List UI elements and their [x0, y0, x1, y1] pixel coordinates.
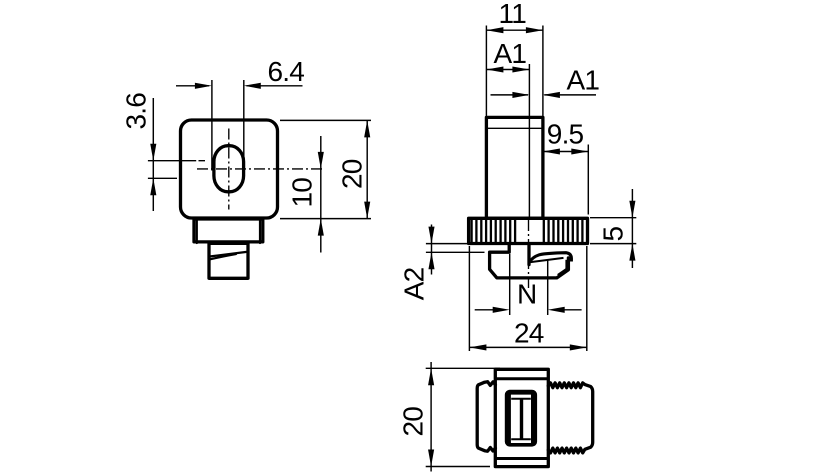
dim 9.5 line — [543, 151, 588, 153]
wire ext 9.5 right — [587, 145, 589, 215]
foot side chamfer inner tick — [558, 269, 567, 275]
svg-text:9.5: 9.5 — [547, 119, 584, 150]
slot top inner lines — [511, 399, 531, 440]
dim 11 line — [486, 29, 543, 31]
wire ext bottom right (10/20) — [280, 218, 371, 220]
svg-text:5: 5 — [598, 227, 629, 242]
dim A1 upper arrows — [486, 66, 503, 72]
wire ext 24 right — [586, 246, 588, 351]
svg-text:20: 20 — [337, 159, 368, 189]
svg-text:N: N — [517, 279, 536, 310]
dim 3.6 line — [152, 98, 154, 211]
hole vertical centerline — [228, 129, 230, 210]
foot side middle edge — [527, 244, 530, 265]
dim A2 arrows — [428, 227, 434, 244]
dim 24 line — [469, 346, 586, 348]
wire ext top right (20) — [280, 119, 371, 121]
wire ext 20 bottom — [426, 466, 490, 468]
flange top right part — [548, 383, 592, 453]
svg-text:24: 24 — [514, 318, 544, 349]
wire ext N right — [547, 261, 549, 316]
dim 3.6 arrows — [150, 144, 156, 161]
body front — [181, 120, 278, 218]
foot side outline — [490, 244, 569, 278]
dim 5 line — [631, 189, 633, 268]
foot side slab lower line — [531, 258, 564, 262]
wire ext 3.6 lower — [148, 177, 177, 179]
dim A1 lower line — [491, 94, 597, 96]
body top tangent line lower — [495, 457, 548, 460]
wire ext 11 left — [485, 26, 487, 118]
dim N arrows — [493, 307, 510, 313]
dim 20 line — [366, 120, 368, 218]
dim 24 arrows — [469, 344, 486, 350]
svg-text:10: 10 — [287, 178, 318, 208]
wire ext 11 right — [542, 26, 544, 118]
slot top center bar — [520, 399, 523, 440]
body side — [486, 117, 543, 218]
svg-text:A1: A1 — [494, 38, 527, 69]
centerline side view — [528, 220, 530, 289]
dim 20 arrows — [364, 120, 370, 137]
dim 5 arrows — [629, 201, 635, 218]
svg-text:11: 11 — [499, 0, 527, 29]
knurl lines — [472, 220, 583, 242]
body side tangent line vertical / A1 ext — [528, 64, 530, 218]
foot front bevel curve — [211, 254, 237, 259]
dim 20 top line — [430, 362, 432, 472]
foot side right inner tick — [565, 260, 567, 270]
step flange front — [194, 219, 263, 242]
flange side — [469, 218, 588, 243]
wire ext 6.4 left — [211, 80, 213, 171]
wire ext 6.4 right — [243, 80, 245, 171]
hole horizontal centerline — [197, 168, 324, 170]
body top tangent line upper — [495, 377, 548, 380]
svg-text:3.6: 3.6 — [121, 93, 152, 130]
body side tangent line horizontal — [486, 127, 543, 129]
wire ext 3.6 upper — [148, 160, 205, 162]
flange top left part — [477, 382, 495, 452]
slot top outer ring — [505, 390, 537, 447]
dim 10 arrows — [318, 152, 324, 169]
dim 9.5 arrows — [543, 148, 560, 154]
dim 5 ext top — [590, 217, 636, 219]
svg-text:6.4: 6.4 — [268, 56, 305, 87]
wire ext A2 lower — [426, 251, 485, 253]
dim 6.4 arrows — [195, 83, 212, 89]
dim 20 top arrows — [428, 368, 434, 385]
foot front bevel line — [211, 252, 247, 257]
wire ext N left — [509, 254, 511, 315]
dim 5 ext bottom — [590, 243, 636, 245]
svg-text:A1: A1 — [567, 64, 600, 95]
slot hole front — [214, 146, 244, 192]
dim 10 line — [320, 136, 322, 253]
svg-text:A2: A2 — [399, 267, 430, 300]
svg-text:20: 20 — [398, 407, 429, 437]
dim 11 arrows — [486, 27, 503, 33]
dim A1 upper line — [486, 69, 529, 71]
foot side slab top — [529, 253, 571, 263]
dim A1 lower arrows — [512, 92, 529, 98]
body top — [495, 369, 548, 466]
dim N line — [475, 309, 582, 311]
wire ext 20 top — [426, 367, 500, 369]
step flange inner edge left — [196, 219, 198, 244]
foot front — [209, 243, 248, 278]
dim 6.4 line — [176, 85, 303, 87]
wire ext 24 left — [468, 246, 470, 351]
dim A2 line — [431, 225, 433, 275]
wire ext A2 upper — [426, 243, 468, 245]
step flange inner edge right — [259, 219, 261, 244]
